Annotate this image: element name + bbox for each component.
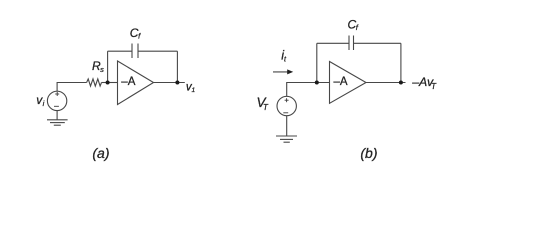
svg-text:it: it [281, 48, 287, 63]
svg-text:–A: –A [121, 76, 135, 88]
voltage source V_T [277, 96, 296, 115]
feedback top wire left [317, 42, 349, 44]
wire source-bottom to ground [286, 116, 288, 136]
junction dot node A (a) [106, 81, 110, 85]
output wire [366, 82, 406, 84]
svg-text:–A: –A [334, 76, 348, 88]
ground [276, 135, 297, 137]
op-amp U1 [118, 61, 154, 105]
feedback left vertical wire [316, 43, 318, 82]
voltage source v_i [47, 91, 66, 110]
svg-text:VT: VT [257, 95, 270, 112]
current arrow i_t [273, 71, 290, 73]
arrowhead [287, 69, 293, 74]
feedback left vertical wire [107, 51, 109, 82]
feedback right vertical wire [400, 43, 402, 82]
wire resistor to amp [102, 82, 118, 84]
feedback top wire left [108, 50, 132, 52]
output wire [154, 82, 185, 84]
wire source-top to amp [287, 83, 330, 97]
svg-text:(a): (a) [92, 145, 109, 161]
feedback top wire right [138, 50, 177, 52]
ground [47, 119, 68, 121]
capacitor C_f [131, 44, 133, 59]
resistor R_s [87, 79, 102, 86]
capacitor C_f [348, 36, 350, 51]
junction dot output (a) [175, 81, 179, 85]
wire source-top to main [57, 83, 87, 92]
svg-text:Rs: Rs [92, 59, 104, 74]
plus/minus in source (b) [283, 98, 288, 113]
plus/minus in source (a) [54, 92, 59, 106]
svg-text:Cf: Cf [348, 18, 359, 32]
wire source-bottom to ground [56, 111, 58, 120]
feedback right vertical wire [176, 51, 178, 82]
junction dot node A (b) [315, 81, 319, 85]
op-amp U2 [330, 62, 367, 104]
junction dot output (b) [399, 81, 403, 85]
svg-text:vi: vi [36, 93, 44, 108]
feedback top wire right [354, 42, 401, 44]
svg-text:–AvT: –AvT [411, 75, 437, 91]
svg-text:v1: v1 [186, 81, 196, 94]
svg-text:Cf: Cf [130, 26, 141, 40]
svg-text:(b): (b) [360, 145, 377, 161]
